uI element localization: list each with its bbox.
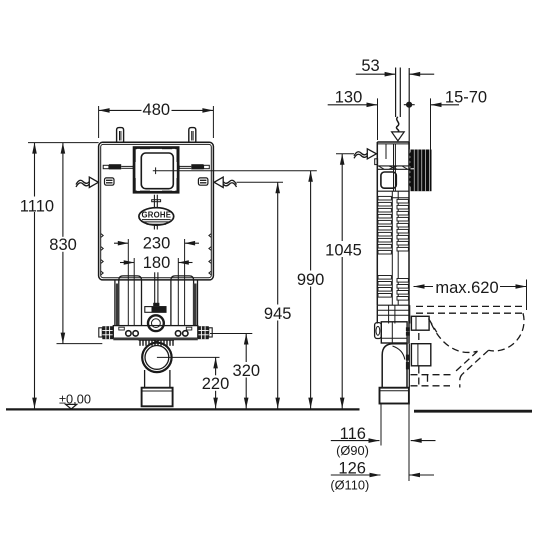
center cross node <box>153 167 317 174</box>
bottom bracket <box>99 326 212 342</box>
wavy inlet arrow left (front view) <box>76 177 98 187</box>
datum ±0,00 <box>59 392 91 410</box>
bracket bolt holes <box>126 331 188 336</box>
ground line right thick <box>414 410 532 413</box>
svg-text:130: 130 <box>335 88 363 106</box>
extension lines 180 <box>134 258 178 326</box>
svg-text:53: 53 <box>361 57 379 75</box>
label Ø110 <box>330 478 369 493</box>
dim 116 <box>331 425 436 443</box>
wall reference dot <box>404 102 415 108</box>
tank edge ribs left <box>101 234 104 276</box>
dim 220 <box>157 357 231 408</box>
supply rod right <box>179 164 209 169</box>
small outlet circle <box>148 315 164 331</box>
svg-text:(Ø110): (Ø110) <box>330 478 369 493</box>
side frame body <box>375 142 409 344</box>
svg-text:990: 990 <box>297 271 325 289</box>
side inlet wavy arrow <box>336 149 376 159</box>
svg-text:max.620: max.620 <box>435 279 498 297</box>
leg channel right <box>171 276 194 326</box>
svg-text:15-70: 15-70 <box>445 88 487 106</box>
svg-text:830: 830 <box>49 236 77 254</box>
mounting tab right top <box>189 128 196 143</box>
dim 945 <box>262 182 293 408</box>
dim 990 <box>295 171 326 409</box>
ladder rungs left column <box>378 196 391 297</box>
elbow side <box>382 344 407 388</box>
svg-text:180: 180 <box>143 254 171 272</box>
fill valve seat lines <box>377 166 409 169</box>
hatch bar left <box>116 284 120 326</box>
connector box lower <box>411 344 430 366</box>
dim max.620 <box>414 279 527 310</box>
svg-text:1110: 1110 <box>20 197 54 215</box>
ladder section side <box>377 191 409 305</box>
svg-text:480: 480 <box>143 101 171 119</box>
dim 480 <box>99 101 214 138</box>
dim 320 <box>210 334 262 409</box>
tank body front view <box>99 142 214 280</box>
frame side edge left lower <box>114 281 116 326</box>
svg-text:945: 945 <box>264 305 292 323</box>
label plate <box>145 307 166 313</box>
valve housing side <box>377 305 409 343</box>
corrugated wall block <box>409 150 432 192</box>
leg channel left <box>119 276 142 326</box>
label Ø90 <box>336 443 369 458</box>
supply pipe top <box>392 68 405 141</box>
connector box upper <box>411 316 429 330</box>
dim 126 <box>331 460 434 478</box>
tank edge ribs right <box>209 234 212 276</box>
housing left boss <box>375 323 382 339</box>
svg-text:116: 116 <box>340 425 366 443</box>
outlet elbow circle front <box>142 343 171 372</box>
mounting tab left top <box>117 128 124 143</box>
svg-text:230: 230 <box>143 235 171 253</box>
ladder rungs right column <box>397 199 408 300</box>
dim 53 <box>356 57 434 149</box>
wavy inlet arrow right (front view) <box>214 177 283 187</box>
dim 130 <box>328 88 378 140</box>
dim 1045 <box>324 154 363 409</box>
supply rod left <box>103 164 133 169</box>
access window side <box>381 172 396 188</box>
outlet pipe front <box>142 370 173 406</box>
frame side edge right lower <box>197 281 199 326</box>
dim 1110 <box>19 143 99 409</box>
extension lines 230 <box>128 239 184 326</box>
GROHE logo <box>139 195 174 230</box>
below ground pipe lines <box>381 404 409 482</box>
clip right <box>198 178 208 185</box>
svg-text:1045: 1045 <box>325 241 362 259</box>
svg-text:GROHE: GROHE <box>142 211 172 220</box>
clip left <box>105 178 115 185</box>
svg-text:126: 126 <box>338 460 366 478</box>
dashed bowl outline <box>411 306 525 387</box>
seals upper <box>406 327 410 335</box>
svg-text:(Ø90): (Ø90) <box>336 443 369 458</box>
flush pipe front <box>153 272 159 306</box>
seals lower <box>406 355 409 370</box>
hatch bar right <box>193 284 197 326</box>
ground line left <box>6 408 360 410</box>
flush pipe side upper <box>394 144 396 191</box>
dim 230 <box>114 235 199 253</box>
dim 15-70 <box>431 88 488 150</box>
flush actuator frame <box>134 148 178 192</box>
frame back edge lower <box>408 344 410 388</box>
outlet collar hatch <box>139 340 175 346</box>
svg-text:320: 320 <box>233 362 261 380</box>
dim 830 <box>48 143 102 344</box>
sleeve side <box>380 388 409 404</box>
dim 180 <box>120 254 193 272</box>
svg-text:220: 220 <box>202 375 230 393</box>
